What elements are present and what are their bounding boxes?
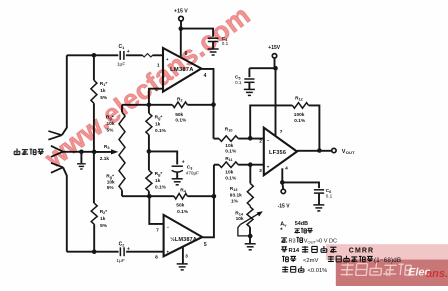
svg-text:1k: 1k: [100, 216, 106, 222]
svg-text:LF356: LF356: [269, 150, 286, 156]
svg-text:ans.co: ans.co: [426, 268, 448, 280]
svg-text:+15V: +15V: [268, 45, 280, 51]
svg-text:2.1k: 2.1k: [100, 156, 110, 162]
svg-text:+: +: [167, 249, 170, 254]
svg-text:R3: R3: [289, 239, 296, 245]
svg-text:+15 V: +15 V: [174, 9, 188, 15]
svg-text:0.1%: 0.1%: [177, 209, 189, 215]
svg-text:1%: 1%: [231, 198, 239, 204]
svg-text:R14: R14: [289, 248, 300, 254]
svg-text:93.1k: 93.1k: [230, 192, 242, 198]
svg-text:4: 4: [285, 166, 288, 172]
svg-text:10k: 10k: [225, 143, 233, 149]
svg-text:+: +: [127, 49, 130, 55]
svg-text:2: 2: [259, 139, 262, 145]
svg-text:0.1%: 0.1%: [225, 175, 237, 181]
svg-text:100k: 100k: [294, 112, 305, 118]
svg-text:−: −: [167, 224, 170, 229]
svg-text:1μF: 1μF: [117, 61, 125, 67]
svg-text:1k: 1k: [155, 121, 161, 127]
svg-text:VOUT≈0 V DC: VOUT≈0 V DC: [304, 239, 337, 245]
svg-text:8: 8: [155, 255, 158, 261]
svg-text:10k: 10k: [107, 179, 115, 185]
svg-text:-15 V: -15 V: [278, 203, 291, 209]
svg-text:0.1%: 0.1%: [294, 118, 306, 124]
svg-text:10k: 10k: [225, 169, 233, 175]
svg-text:50k: 50k: [176, 203, 184, 209]
svg-text:<0.01%: <0.01%: [308, 268, 328, 274]
svg-text:1k: 1k: [155, 178, 161, 184]
svg-text:3: 3: [259, 168, 262, 174]
svg-text:+: +: [267, 164, 270, 169]
svg-text:3: 3: [185, 253, 188, 259]
svg-text:0.1%: 0.1%: [155, 128, 167, 134]
svg-text:5: 5: [204, 242, 207, 248]
svg-text:4: 4: [204, 73, 207, 79]
svg-text:VOUT: VOUT: [342, 149, 355, 155]
svg-text:1k: 1k: [100, 88, 106, 94]
svg-text:0.1%: 0.1%: [175, 117, 187, 123]
svg-text:−: −: [267, 138, 270, 143]
svg-text:+: +: [127, 246, 130, 252]
svg-text:1μF: 1μF: [116, 258, 124, 264]
svg-text:<2mV: <2mV: [303, 258, 318, 264]
svg-text:10k: 10k: [236, 216, 244, 222]
svg-text:5%: 5%: [107, 185, 115, 191]
svg-text:470μF: 470μF: [186, 171, 199, 176]
svg-text:0.1%: 0.1%: [225, 149, 237, 155]
svg-text:½LM387A: ½LM387A: [170, 236, 197, 243]
svg-text:5%: 5%: [100, 223, 108, 229]
svg-text:0.1%: 0.1%: [155, 185, 167, 191]
svg-text:50k: 50k: [175, 112, 183, 118]
svg-text:0.1: 0.1: [235, 80, 242, 85]
svg-text:7: 7: [280, 129, 283, 135]
svg-text:0.1: 0.1: [326, 194, 333, 199]
svg-text:54dB: 54dB: [295, 221, 308, 227]
svg-text:7: 7: [156, 227, 159, 233]
svg-text:Av: Av: [280, 221, 287, 227]
svg-text:+: +: [182, 159, 185, 165]
